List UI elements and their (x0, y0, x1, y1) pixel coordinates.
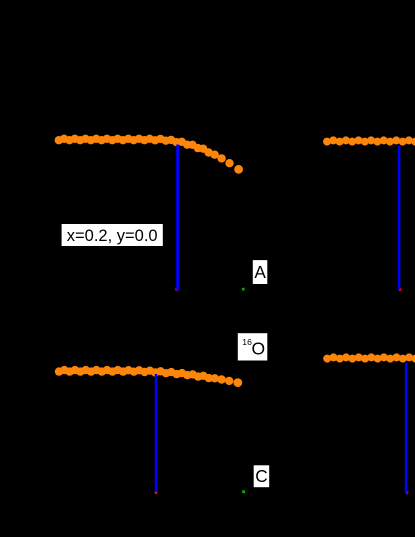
svg-text:O: O (252, 339, 266, 359)
red marker tip panel2 vline (399, 288, 401, 291)
blue vline panel3 (Fermi level bottom-left) (155, 374, 158, 491)
orange curve panel3 (bottom-left occupation curve) (55, 366, 242, 387)
orange curve panel4 (bottom-right occupation curve) (323, 353, 415, 362)
orange curve panel1 (top-left occupation curve) (55, 135, 243, 174)
red marker tip panel4 vline (406, 491, 408, 494)
white label box 16O (238, 333, 267, 360)
red marker tip panel3 vline (155, 491, 158, 494)
orange curve panel2 (top-right occupation curve) (323, 136, 415, 145)
svg-text:C: C (255, 466, 267, 486)
svg-text:A: A (254, 262, 266, 282)
blue vline panel2 (Fermi level top-right) (398, 145, 401, 289)
white label box x=0.2, y=0.0 (62, 224, 163, 246)
blue vline panel4 (Fermi level bottom-right) (405, 363, 408, 494)
blue vline panel1 (Fermi level top-left) (176, 145, 179, 291)
red marker tip panel1 vline (175, 288, 178, 291)
white label box A (253, 260, 267, 284)
white label box C (254, 465, 270, 487)
svg-text:x=0.2, y=0.0: x=0.2, y=0.0 (67, 227, 158, 245)
green marker near A (242, 288, 245, 291)
green marker near C (242, 490, 245, 493)
